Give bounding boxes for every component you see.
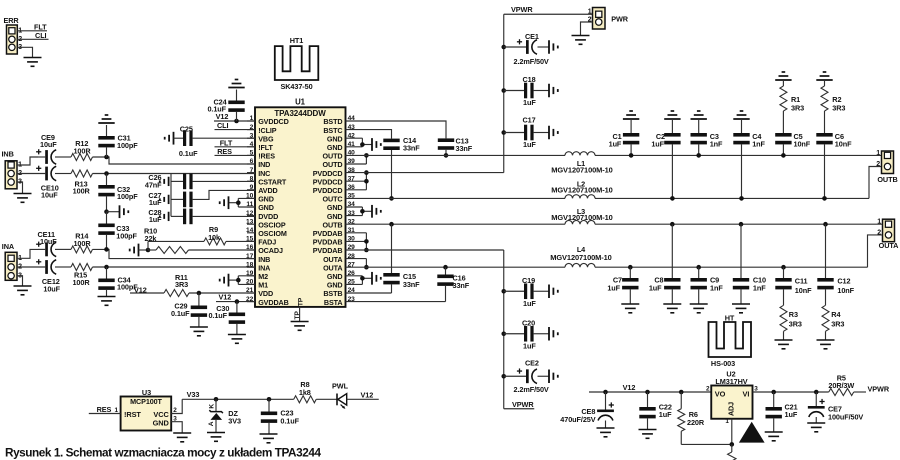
label C14 33nF — [403, 136, 420, 153]
svg-text:1uF: 1uF — [149, 215, 162, 224]
capacitor CE7 — [808, 392, 825, 423]
svg-text:3R3: 3R3 — [791, 103, 804, 112]
svg-text:3V3: 3V3 — [228, 417, 241, 426]
label R5 20R/3W — [828, 374, 854, 391]
label R2 3R3 — [832, 95, 845, 113]
svg-text:CLI: CLI — [35, 31, 47, 40]
svg-text:10uF: 10uF — [40, 140, 57, 149]
capacitor C4 — [733, 111, 749, 198]
node C20 — [501, 331, 506, 336]
svg-text:OUTA: OUTA — [879, 241, 900, 250]
svg-text:R4: R4 — [831, 310, 841, 319]
svg-text:33nF: 33nF — [453, 281, 470, 290]
wire pin23 BSTA — [346, 301, 446, 303]
node row2 junction — [104, 171, 109, 176]
node C6 — [822, 196, 827, 201]
label FLT pin4 — [220, 138, 233, 147]
ground C28 — [160, 212, 169, 221]
inductor L2 — [565, 195, 595, 199]
label CE12 10uF — [42, 277, 61, 293]
svg-text:0.1uF: 0.1uF — [280, 416, 299, 425]
label C13 33nF — [456, 136, 473, 153]
label L1 MGV1207100M-10 — [551, 165, 612, 174]
label PWL — [332, 381, 349, 390]
node pin38 — [364, 170, 369, 175]
wire V12 rail — [589, 391, 711, 393]
resistor R4 — [822, 305, 829, 340]
node pins 27-28 — [364, 265, 369, 270]
heatsink HT1 — [275, 46, 319, 80]
label L2 — [577, 180, 585, 189]
ground C29 — [190, 327, 208, 336]
label CE7 100uF/50V — [828, 413, 863, 422]
label OUTB — [877, 175, 897, 184]
label CE7 — [828, 405, 842, 414]
svg-text:U3: U3 — [142, 388, 151, 397]
resistor R3 — [780, 305, 787, 340]
node C15 OUTB — [389, 222, 394, 227]
svg-text:33nF: 33nF — [403, 280, 420, 289]
label VPWR right — [868, 385, 890, 394]
svg-text:100R: 100R — [73, 147, 91, 156]
node C19 — [501, 289, 506, 294]
label V12 PWL — [361, 390, 374, 399]
ground C1 top — [0, 0, 1, 1]
wire OUTC rise to OUTB pin2 — [869, 167, 882, 199]
svg-text:33nF: 33nF — [403, 143, 420, 152]
capacitor C34 — [98, 267, 114, 297]
svg-text:100R: 100R — [73, 239, 91, 248]
svg-text:C19: C19 — [522, 276, 535, 285]
heatsink HT — [709, 322, 752, 357]
resistor R11 — [164, 290, 189, 297]
node row4 junction — [104, 265, 109, 270]
svg-text:1uF: 1uF — [609, 139, 622, 148]
pin 1 U3 — [115, 407, 119, 414]
node C32-C33 ground junction — [104, 209, 109, 214]
svg-text:1uF: 1uF — [649, 284, 662, 293]
label CE1 — [525, 32, 539, 41]
svg-text:100pF: 100pF — [117, 141, 138, 150]
label CE9 10uF — [40, 133, 57, 149]
wire INB pin3 to ground — [17, 182, 23, 194]
ground pins 25-26 — [372, 272, 381, 285]
svg-text:100pF: 100pF — [116, 231, 137, 240]
wire INB pin1 jog — [17, 157, 38, 165]
label SK437-50 — [280, 82, 312, 91]
svg-text:C12: C12 — [837, 277, 850, 286]
label L1 — [577, 159, 585, 168]
ground C23 — [260, 434, 278, 443]
label V33 — [187, 390, 200, 399]
svg-text:HT1: HT1 — [290, 36, 304, 45]
svg-text:100pF: 100pF — [117, 192, 138, 201]
inductor L3 — [565, 220, 595, 224]
resistor R6 — [678, 392, 685, 444]
wire C27 to pin9 AVDD — [193, 190, 255, 199]
node row3 junction — [104, 247, 109, 252]
wire pins 19-20 M2/M1 — [229, 276, 256, 285]
svg-text:2.2mF/50V: 2.2mF/50V — [514, 57, 549, 66]
node pin30 — [364, 239, 369, 244]
wire row OUTC — [346, 197, 870, 199]
capacitor C28 — [171, 209, 255, 225]
svg-text:1: 1 — [876, 150, 880, 157]
label C4 1nF — [752, 132, 765, 149]
capacitor C5 — [775, 133, 791, 155]
capacitor C25 — [174, 130, 256, 146]
capacitor C23 — [261, 399, 277, 433]
wire rail PVDDAB — [346, 249, 504, 251]
node C4 — [739, 196, 744, 201]
label CE2 — [525, 358, 539, 367]
resistor R15 — [71, 264, 93, 271]
svg-text:10nF: 10nF — [795, 286, 812, 295]
svg-text:1: 1 — [725, 418, 729, 425]
svg-text:3R3: 3R3 — [832, 103, 845, 112]
wire RES to U3 — [89, 413, 121, 415]
wire pins 33-34 GND — [346, 207, 373, 216]
ground TP — [291, 322, 309, 331]
label V12 pin22 — [219, 293, 232, 302]
svg-text:1: 1 — [877, 219, 881, 226]
svg-text:10k: 10k — [208, 233, 221, 242]
node pin29 — [364, 248, 369, 253]
label C26 47nF — [145, 173, 162, 189]
label R4 3R3 — [831, 310, 844, 329]
node R9/R10 junction — [146, 248, 151, 253]
svg-text:PWR: PWR — [611, 15, 629, 24]
label V12 R11 — [134, 285, 147, 294]
wire pin22 V12 — [216, 301, 255, 303]
label INA — [2, 242, 15, 251]
node C14 OUTC — [389, 196, 394, 201]
svg-text:VPWR: VPWR — [868, 385, 890, 394]
capacitor C2 — [664, 111, 680, 198]
svg-text:0.1uF: 0.1uF — [171, 309, 190, 318]
capacitor C33 — [98, 212, 114, 250]
wire VPWR top — [504, 13, 593, 15]
svg-text:2: 2 — [876, 161, 880, 168]
svg-text:MGV1207100M-10: MGV1207100M-10 — [551, 186, 612, 195]
svg-text:1uF: 1uF — [659, 410, 672, 419]
ground C25 — [165, 132, 174, 145]
svg-text:GND: GND — [153, 418, 170, 427]
node C21 — [771, 390, 776, 395]
node C11 — [781, 265, 786, 270]
label R3 3R3 — [789, 310, 802, 329]
node C5 — [781, 153, 786, 158]
label FLT — [34, 23, 47, 32]
wire ground to R10 — [139, 249, 149, 251]
node pins 19-20 — [236, 278, 241, 283]
wire row2 to pin7 INC — [93, 173, 256, 175]
ground C9 — [690, 304, 708, 313]
wire ADJ — [731, 419, 733, 445]
svg-text:0.1uF: 0.1uF — [208, 311, 227, 320]
svg-text:VPWR: VPWR — [511, 5, 533, 14]
label K — [208, 404, 215, 409]
capacitor CE1 — [504, 39, 549, 54]
node C24 — [234, 119, 239, 124]
label C12 10nF — [837, 277, 854, 295]
ground C27 — [160, 195, 169, 204]
svg-text:CE2: CE2 — [525, 358, 539, 367]
label RES U3 — [97, 405, 112, 414]
inductor L4 — [565, 263, 595, 267]
supervisor U3 MCP100T — [121, 397, 172, 431]
label ERR — [4, 16, 20, 25]
label RES pin5 — [217, 147, 232, 156]
node C8 — [670, 222, 675, 227]
wire R11 to pin21 VDD — [189, 292, 255, 294]
label V12 rail — [623, 383, 636, 392]
label C3 1nF — [710, 132, 723, 149]
wire U3 GND to ground — [171, 422, 182, 433]
node C1 — [629, 153, 634, 158]
connector PWR — [588, 8, 605, 30]
ground pins 41-42 — [372, 138, 381, 151]
wire VPWR lower vertical — [504, 250, 535, 409]
capacitor C22 — [639, 392, 655, 429]
capacitor CE10 — [36, 166, 71, 181]
svg-text:3R3: 3R3 — [831, 320, 844, 329]
wire to ground C32/C33 — [107, 211, 120, 213]
ground R1 top — [775, 72, 791, 80]
ground C31 top — [98, 115, 114, 123]
label C7 1uF — [607, 275, 622, 292]
wire pins 36-38 PVDDCD — [346, 173, 367, 190]
inductor L1 — [565, 152, 595, 156]
svg-text:Rysunek 1. Schemat wzmacniacza: Rysunek 1. Schemat wzmacniacza mocy z uk… — [5, 446, 321, 460]
svg-text:3R3: 3R3 — [175, 280, 188, 289]
svg-text:RES: RES — [217, 147, 232, 156]
label R11 3R3 — [175, 273, 188, 289]
svg-text:HT: HT — [725, 314, 735, 323]
label V12 pin1 — [216, 112, 229, 121]
node CE8 — [603, 390, 608, 395]
label C20 1uF — [522, 318, 536, 350]
ground C24 top — [228, 80, 244, 88]
node C2 — [670, 196, 675, 201]
node C3 — [696, 153, 701, 158]
connector INA — [5, 252, 22, 280]
wire pin24 BSTB — [346, 292, 392, 294]
capacitor C20 — [504, 326, 549, 342]
wire pins 39-40 OUTD — [346, 155, 367, 164]
label VPWR top — [511, 5, 533, 14]
label C27 1uF — [148, 191, 162, 207]
capacitor C31 — [98, 125, 114, 157]
svg-text:OUTB: OUTB — [877, 175, 897, 184]
svg-text:INB: INB — [2, 150, 14, 159]
capacitor C3 — [691, 111, 707, 155]
label R15 100R — [72, 271, 90, 287]
wire pins 29-31 PVDDAB — [346, 233, 367, 250]
label CLI — [35, 31, 47, 40]
svg-text:VO: VO — [715, 389, 726, 398]
capacitor C11 — [775, 267, 791, 305]
node R6 — [679, 390, 684, 395]
resistor R7 partial — [728, 444, 736, 460]
svg-text:GVDDAB: GVDDAB — [258, 298, 289, 307]
svg-text:0.1uF: 0.1uF — [179, 149, 198, 158]
node ADJ — [730, 442, 735, 447]
svg-text:1nF: 1nF — [710, 284, 723, 293]
connector OUTA — [877, 219, 894, 242]
label CE11 10uF — [38, 230, 58, 246]
label L4 — [577, 245, 586, 254]
label C1 1uF — [609, 132, 622, 149]
label C18 1uF — [523, 75, 537, 107]
capacitor C7 — [622, 267, 638, 304]
resistor R10 — [148, 247, 255, 254]
ground INB — [14, 194, 32, 203]
svg-text:1k8: 1k8 — [299, 388, 311, 397]
ground R3 — [775, 340, 793, 349]
capacitor C1 — [623, 111, 639, 155]
label R14 100R — [73, 232, 91, 248]
label R6 220R — [687, 410, 705, 427]
svg-text:100uF/50V: 100uF/50V — [828, 413, 863, 422]
svg-text:220R: 220R — [687, 418, 705, 427]
ground pins 33-34 — [372, 205, 381, 218]
wire ERR pin3 to ground — [17, 47, 32, 57]
svg-text:33nF: 33nF — [456, 144, 473, 153]
capacitor C18 — [504, 83, 549, 99]
label C24 0.1uF — [207, 97, 227, 113]
wire row OUTA — [346, 266, 868, 268]
wire V33 rail — [182, 398, 294, 400]
label L2 MGV1207100M-10 — [551, 186, 612, 195]
svg-text:47nF: 47nF — [145, 180, 162, 189]
svg-text:V12: V12 — [219, 293, 232, 302]
capacitor CE12 — [36, 259, 71, 274]
wire net FLT from ERR pin1 — [17, 30, 47, 32]
label CE10 10uF — [41, 183, 59, 199]
ground C19 — [549, 285, 558, 299]
svg-text:1uF: 1uF — [523, 98, 536, 107]
transistor heatsink tab triangle — [739, 422, 765, 443]
wire INA pin1 jog — [17, 249, 38, 258]
op-amp U1 TPA3244DDW class-D amplifier IC — [246, 107, 355, 307]
capacitor C30 — [229, 302, 245, 335]
node pins 41-42 — [360, 142, 365, 147]
svg-text:MCP100T: MCP100T — [130, 397, 162, 406]
svg-text:2: 2 — [706, 386, 710, 393]
node C22 — [645, 390, 650, 395]
svg-text:MGV1207100M-10: MGV1207100M-10 — [551, 213, 612, 222]
resistor R12 — [71, 154, 93, 161]
svg-text:10uF: 10uF — [43, 284, 60, 293]
svg-text:VPWR: VPWR — [512, 400, 534, 409]
wire pins 10-11 GND — [229, 198, 256, 207]
node C30 — [235, 299, 240, 304]
wire pin1 V12 — [214, 120, 255, 122]
resistor R1 — [780, 80, 787, 133]
label CLI pin2 — [217, 121, 229, 130]
svg-text:HS-003: HS-003 — [711, 359, 735, 368]
svg-text:2.2mF/50V: 2.2mF/50V — [514, 385, 549, 394]
svg-text:V12: V12 — [361, 390, 374, 399]
node C29 — [197, 291, 202, 296]
label C25 0.1uF — [179, 124, 198, 158]
label R13 100R — [73, 179, 91, 195]
wire row OUTD — [346, 154, 882, 156]
svg-text:1uF: 1uF — [523, 140, 536, 149]
ground C22 — [639, 430, 657, 439]
capacitor C12 — [817, 224, 833, 305]
svg-text:!RST: !RST — [124, 410, 141, 419]
ground C18 — [549, 84, 558, 98]
capacitor C15 — [383, 224, 399, 293]
node pins 10-11 — [236, 200, 241, 205]
svg-text:1uF: 1uF — [523, 342, 536, 351]
ground U3 — [173, 433, 191, 442]
label L3 — [577, 207, 585, 216]
wire pin43 BSTC — [346, 130, 392, 139]
wire INA pin3 to ground — [17, 276, 23, 286]
label C23 0.1uF — [280, 409, 299, 426]
ground C20 — [549, 327, 558, 341]
caption — [5, 446, 321, 460]
label OUTA — [879, 241, 900, 250]
label C17 1uF — [523, 115, 537, 149]
label R9 10k — [208, 225, 221, 242]
svg-text:100R: 100R — [73, 187, 91, 196]
svg-text:ERR: ERR — [4, 16, 20, 25]
svg-text:R3: R3 — [789, 310, 798, 319]
resistor R9 — [148, 238, 255, 245]
svg-text:ADJ: ADJ — [726, 402, 735, 416]
capacitor C8 — [664, 224, 680, 304]
wire pins 41-42 GND — [346, 138, 373, 147]
ground INA — [14, 286, 32, 295]
wire net CLI from ERR pin2 — [17, 38, 48, 40]
label DZ 3V3 — [228, 409, 241, 426]
wire row OUTB — [346, 223, 883, 225]
node C23 — [267, 397, 272, 402]
ground C10 — [732, 304, 750, 313]
capacitor C6 — [816, 133, 832, 198]
svg-text:20R/3W: 20R/3W — [828, 381, 854, 390]
svg-text:10uF: 10uF — [40, 237, 57, 246]
capacitor C10 — [733, 224, 749, 304]
wire pins 27-28 OUTA — [346, 259, 367, 268]
wire rail PVDDCD — [346, 172, 504, 174]
capacitor CE9 — [36, 149, 71, 164]
ground R10 — [130, 244, 139, 257]
label C33 100pF — [116, 224, 137, 240]
node pins 25-26 — [360, 276, 365, 281]
ground CE1 — [549, 40, 558, 54]
ground R2 top — [816, 72, 832, 80]
capacitor C17 — [504, 125, 549, 141]
resistor R13 — [71, 170, 93, 177]
capacitor C29 — [191, 293, 207, 327]
svg-text:2: 2 — [173, 407, 177, 414]
svg-text:C18: C18 — [523, 75, 536, 84]
node CE2 — [501, 374, 506, 379]
ground C32/C33 — [120, 205, 129, 218]
wire ground bus C26-C28 — [170, 174, 172, 217]
capacitor C24 — [228, 90, 244, 122]
connector ERR — [7, 25, 23, 54]
label INB — [2, 150, 14, 159]
svg-text:CE1: CE1 — [525, 32, 539, 41]
wire OUTA rise to OUTA pin2 — [868, 235, 883, 267]
label PWR — [611, 15, 629, 24]
